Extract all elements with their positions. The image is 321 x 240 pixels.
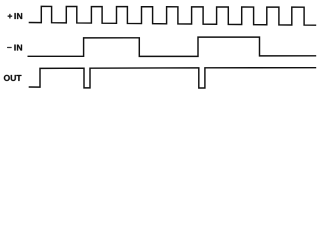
label +IN [8,13,22,19]
waveform -IN trace [28,37,317,56]
waveform +IN clock trace [29,6,317,25]
label -IN [7,45,22,51]
label OUT [4,75,22,81]
waveform OUT trace [29,68,317,88]
